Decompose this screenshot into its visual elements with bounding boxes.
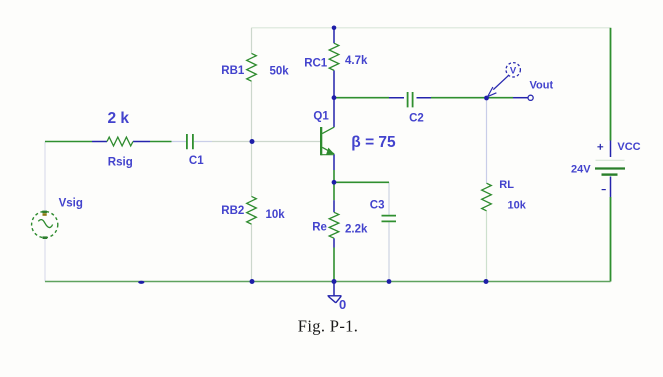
svg-text:C1: C1 bbox=[189, 155, 204, 167]
svg-text:Q1: Q1 bbox=[313, 110, 329, 122]
svg-text:Vout: Vout bbox=[530, 80, 554, 92]
svg-text:β = 75: β = 75 bbox=[351, 134, 396, 151]
svg-text:RB1: RB1 bbox=[221, 65, 245, 77]
svg-text:RC1: RC1 bbox=[304, 58, 328, 70]
svg-text:10k: 10k bbox=[266, 209, 286, 221]
svg-text:C2: C2 bbox=[409, 113, 424, 125]
svg-text:2.2k: 2.2k bbox=[345, 224, 368, 236]
svg-text:Vsig: Vsig bbox=[59, 198, 83, 210]
svg-text:24V: 24V bbox=[571, 163, 591, 175]
svg-text:VCC: VCC bbox=[617, 141, 640, 153]
svg-text:4.7k: 4.7k bbox=[345, 55, 368, 67]
svg-text:Rsig: Rsig bbox=[108, 157, 133, 169]
svg-text:10k: 10k bbox=[508, 200, 527, 212]
svg-text:50k: 50k bbox=[270, 66, 290, 78]
svg-text:C3: C3 bbox=[370, 200, 385, 212]
svg-text:Fig. P-1.: Fig. P-1. bbox=[298, 317, 358, 336]
svg-text:Re: Re bbox=[312, 222, 327, 234]
svg-text:0: 0 bbox=[339, 297, 346, 312]
svg-text:RL: RL bbox=[499, 179, 514, 191]
svg-text:2 k: 2 k bbox=[108, 110, 130, 127]
svg-text:V: V bbox=[510, 65, 517, 76]
svg-text:RB2: RB2 bbox=[221, 205, 244, 217]
